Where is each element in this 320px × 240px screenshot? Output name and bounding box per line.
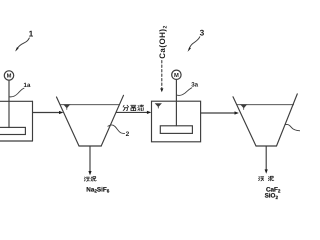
- arrowhead of leader 1: [15, 47, 19, 52]
- shaft of stirrer 2: [175, 80, 177, 126]
- impeller of tank 3: [160, 126, 192, 134]
- tank 1 top edge: [0, 100, 33, 102]
- svg-text:Ca(OH)2: Ca(OH)2: [158, 25, 168, 59]
- water level symbol clarifier 4: [241, 105, 246, 110]
- clarifier 4 water line: [237, 104, 294, 106]
- char 流: [138, 105, 144, 111]
- text Na2SiF6: [86, 186, 109, 193]
- clarifier 4 left slant: [233, 97, 256, 146]
- water level symbol tank 3: [156, 104, 161, 109]
- flow arrow tank1 to clarifier 2: [33, 112, 60, 114]
- char 离: [131, 105, 136, 110]
- svg-text:1a: 1a: [24, 82, 31, 89]
- text SiO2: [265, 193, 279, 200]
- char 分: [123, 105, 129, 110]
- sludge arrow from clarifier 2: [89, 146, 91, 171]
- dashed feed arrow Ca(OH)2: [161, 61, 163, 89]
- text 污泥 (sludge) right, drawn strokes: [259, 176, 274, 181]
- tank 1 right wall: [32, 101, 34, 141]
- text 污泥 (sludge) left, drawn strokes: [84, 177, 96, 182]
- leader curve for label 1: [17, 38, 30, 50]
- leader curve for label 3: [189, 37, 200, 50]
- label 3: [200, 27, 205, 37]
- clarifier 2 left slant: [57, 97, 80, 146]
- text 分离流 (separated stream), drawn strokes: [123, 105, 143, 111]
- shaft of stirrer 1: [8, 80, 10, 127]
- svg-text:M: M: [7, 74, 12, 80]
- leader curve for label 1a: [10, 88, 24, 97]
- tank 3 walls: [152, 101, 201, 142]
- svg-text:Na2SiF6: Na2SiF6: [86, 186, 109, 193]
- svg-text:3a: 3a: [191, 82, 198, 89]
- clarifier 2 bottom: [79, 145, 101, 147]
- arrowhead of leader 3: [188, 47, 191, 52]
- label 2: [126, 131, 130, 138]
- label 1: [29, 29, 34, 39]
- leader curve for label 2: [108, 125, 125, 133]
- svg-text:3: 3: [200, 27, 205, 37]
- water level symbol clarifier 2: [64, 105, 69, 110]
- clarifier 4 right slant: [277, 94, 298, 146]
- svg-text:2: 2: [126, 131, 130, 138]
- label 3a: [191, 82, 198, 89]
- tank 1 bottom edge: [0, 140, 33, 142]
- leader curve for label 3a: [177, 88, 192, 96]
- svg-text:SiO2: SiO2: [265, 193, 279, 200]
- label 1a: [24, 82, 31, 89]
- vertical text Ca(OH)2: [158, 25, 168, 59]
- clarifier 2 water line: [60, 104, 119, 106]
- motor M2: [172, 70, 181, 79]
- sludge arrow from clarifier 4: [265, 146, 267, 170]
- svg-text:M: M: [174, 73, 179, 79]
- impeller of tank 1: [0, 127, 25, 134]
- outlet arrow clarifier 2 to tank 3: [116, 111, 147, 113]
- flow arrow tank 3 to clarifier 4: [201, 112, 236, 114]
- text CaF2: [266, 186, 281, 193]
- svg-text:1: 1: [29, 29, 34, 39]
- leader curve for label 4 (cut off at edge): [286, 124, 300, 130]
- clarifier 2 right slant: [101, 95, 123, 146]
- clarifier 4 bottom: [256, 145, 277, 147]
- motor M1: [4, 71, 13, 80]
